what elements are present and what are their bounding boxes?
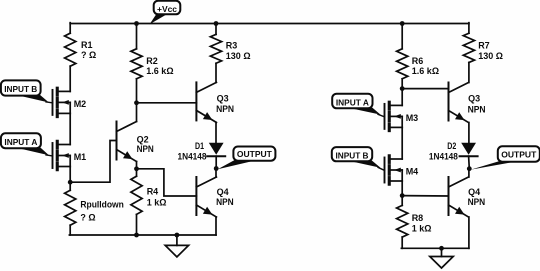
svg-text:R8: R8 — [412, 213, 424, 223]
svg-text:R7: R7 — [478, 41, 490, 51]
wire R7 to Q3 collector — [468, 63, 470, 83]
node Q2 emitter junction — [134, 166, 139, 171]
wire M1 source to node — [69, 167, 71, 183]
wire M3 source to M4 drain — [401, 127, 403, 159]
label Q3 NPN right — [468, 94, 486, 115]
wire R4 to bottom rail — [136, 214, 138, 235]
node R2 bottom junction — [134, 100, 139, 105]
svg-text:R6: R6 — [412, 56, 424, 66]
svg-text:? Ω: ? Ω — [81, 50, 96, 60]
wire node to R8 — [401, 196, 403, 206]
svg-text:M2: M2 — [74, 99, 87, 109]
wire R7 top lead — [468, 23, 470, 34]
resistor R7 — [463, 33, 474, 62]
wire node to Q4 base staircase — [137, 169, 197, 196]
label R1 value — [81, 40, 96, 60]
svg-text:1N4148: 1N4148 — [178, 151, 207, 161]
svg-text:INPUT B: INPUT B — [336, 151, 369, 160]
label Rpulldown value — [80, 199, 124, 222]
wire R8 to bottom rail — [401, 237, 403, 248]
resistor R3 — [210, 34, 221, 63]
svg-text:D1: D1 — [195, 141, 204, 151]
transistor Q4 right — [449, 177, 469, 217]
wire node to Q4 base right — [402, 195, 448, 197]
svg-text:1N4148: 1N4148 — [429, 151, 458, 161]
node M1-source junction — [68, 180, 73, 185]
diode D2 — [460, 143, 478, 157]
resistor Rpulldown — [65, 190, 76, 225]
svg-text:+Vcc: +Vcc — [157, 5, 177, 14]
label D2 1N4148 — [429, 141, 458, 162]
wire node to Q2 base — [70, 141, 116, 183]
wire Q4 emitter to bottom rail — [215, 217, 217, 235]
svg-text:R3: R3 — [226, 41, 238, 51]
node rail-R3 — [214, 21, 219, 26]
wire node to R4 — [136, 169, 138, 176]
transistor Q3 right — [449, 83, 469, 123]
resistor R2 — [131, 49, 142, 79]
wire R3 top lead — [215, 24, 217, 35]
wire Rpulldown to bottom rail — [69, 225, 71, 235]
label R3 value — [226, 41, 251, 62]
wire node to Q3 base right — [402, 88, 448, 90]
diode D1 — [207, 143, 225, 157]
svg-text:1.6 kΩ: 1.6 kΩ — [412, 66, 439, 76]
wire D2 to output node — [468, 156, 471, 169]
svg-text:NPN: NPN — [216, 197, 234, 207]
wire node to Rpulldown — [69, 182, 71, 190]
transistor Q3 left — [196, 82, 216, 122]
label D1 1N4148 — [178, 141, 207, 162]
transistor M2 — [53, 88, 71, 116]
wire Q2 emitter to node — [136, 162, 138, 169]
svg-text:Q4: Q4 — [217, 187, 229, 197]
label M2 — [74, 99, 87, 109]
wire node to M3 drain — [401, 89, 403, 106]
svg-text:Q3: Q3 — [468, 94, 480, 104]
wire M2 source to M1 drain — [69, 113, 71, 144]
transistor M1 — [53, 141, 71, 169]
svg-text:Q3: Q3 — [217, 93, 229, 103]
transistor Q4 left — [196, 177, 216, 217]
wire M4 source to node — [401, 181, 403, 196]
resistor R1 — [65, 33, 76, 66]
svg-text:Q4: Q4 — [468, 187, 480, 197]
svg-text:NPN: NPN — [468, 197, 486, 207]
resistor R6 — [397, 49, 408, 79]
svg-text:NPN: NPN — [216, 104, 234, 114]
svg-text:1 kΩ: 1 kΩ — [147, 197, 167, 207]
wire Q2 collector up — [136, 103, 138, 122]
label Q2 NPN — [137, 134, 154, 153]
node rail-R6 — [400, 21, 405, 26]
wire R2 top lead — [136, 24, 138, 49]
wire Q4 collector up right — [468, 169, 470, 177]
wire Q4 emitter to bottom rail right — [468, 217, 470, 248]
wire Q3 emitter to D2 — [468, 123, 470, 143]
svg-text:1.6 kΩ: 1.6 kΩ — [146, 66, 173, 76]
callout INPUT B left — [1, 80, 53, 102]
node ground left junction — [175, 233, 180, 238]
resistor R4 — [131, 176, 142, 214]
wire D1 to output node — [215, 156, 217, 168]
callout OUTPUT right — [471, 146, 540, 169]
node output right — [467, 166, 472, 171]
svg-text:OUTPUT: OUTPUT — [237, 150, 272, 159]
callout INPUT A left — [1, 133, 53, 156]
callout INPUT A right — [332, 94, 384, 117]
svg-text:Rpulldown: Rpulldown — [80, 199, 124, 209]
wire Q4 collector up — [215, 169, 217, 178]
callout INPUT B right — [332, 147, 385, 170]
svg-text:M1: M1 — [74, 152, 87, 162]
label R2 value — [146, 56, 173, 76]
svg-text:130 Ω: 130 Ω — [226, 51, 251, 61]
resistor R8 — [397, 205, 408, 237]
callout OUTPUT left — [218, 147, 276, 170]
label M1 — [74, 152, 87, 162]
wire R6 top lead — [401, 24, 403, 49]
node ground right junction — [439, 246, 444, 251]
svg-text:R1: R1 — [81, 40, 93, 50]
wire +Vcc top rail — [70, 23, 469, 25]
wire R3 to Q3 collector — [215, 63, 217, 82]
node rail-R2 — [134, 21, 139, 26]
svg-text:R2: R2 — [146, 56, 158, 66]
svg-text:INPUT A: INPUT A — [4, 138, 37, 147]
node output left — [214, 166, 219, 171]
label M4 — [406, 167, 419, 177]
ground left — [165, 245, 188, 257]
transistor M3 — [385, 102, 403, 130]
ground right — [430, 257, 453, 269]
label R4 value — [147, 186, 167, 207]
wire R1 to M2 drain — [69, 66, 71, 91]
svg-text:NPN: NPN — [468, 104, 486, 114]
callout +Vcc — [150, 1, 181, 25]
label M3 — [406, 113, 419, 123]
svg-text:NPN: NPN — [137, 144, 154, 154]
label Q4 NPN left — [216, 187, 234, 207]
transistor Q2 — [117, 122, 137, 162]
wire R6 to node — [401, 79, 403, 89]
node M4 source junction — [400, 193, 405, 198]
label Q3 NPN left — [216, 93, 234, 114]
wire R1 top lead — [69, 23, 71, 34]
node R4 bottom — [134, 233, 139, 238]
svg-text:OUTPUT: OUTPUT — [501, 151, 536, 160]
svg-text:1 kΩ: 1 kΩ — [412, 224, 432, 234]
svg-text:INPUT B: INPUT B — [4, 85, 37, 94]
svg-text:M3: M3 — [406, 113, 419, 123]
label R7 value — [478, 41, 503, 62]
wire node to Q3 base — [137, 102, 197, 104]
wire ground stem right — [441, 248, 443, 256]
wire Q3 emitter to D1 — [215, 122, 217, 142]
svg-text:INPUT A: INPUT A — [336, 98, 369, 107]
node R6 bottom junction — [400, 86, 405, 91]
label R6 value — [412, 56, 439, 76]
transistor M4 — [385, 156, 403, 184]
svg-text:130 Ω: 130 Ω — [478, 51, 503, 61]
svg-text:D2: D2 — [447, 141, 456, 151]
wire bottom rail right — [401, 247, 469, 249]
label Q4 NPN right — [468, 187, 486, 207]
svg-text:? Ω: ? Ω — [80, 212, 95, 222]
svg-text:M4: M4 — [406, 167, 419, 177]
svg-text:R4: R4 — [147, 186, 159, 196]
wire ground stem left — [176, 235, 178, 245]
wire R2 to node — [136, 79, 138, 103]
label R8 value — [412, 213, 432, 234]
wire bottom rail left — [69, 234, 216, 236]
